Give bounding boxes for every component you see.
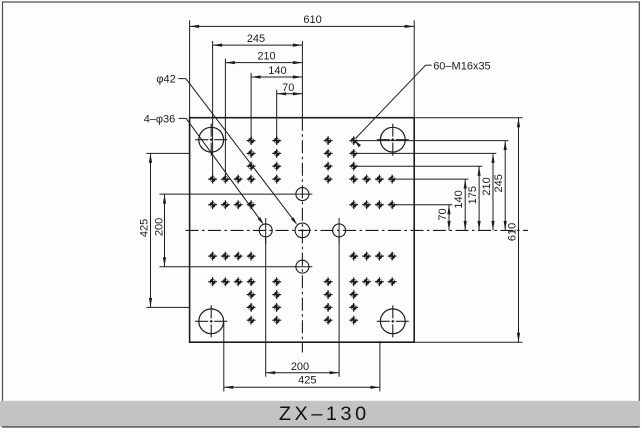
svg-text:140: 140	[453, 190, 465, 208]
M16 hole (140,-70)	[349, 200, 358, 209]
M16 hole (245,140)	[388, 277, 397, 286]
phi36 hole bottom	[296, 260, 309, 273]
M16 hole (140,-210)	[349, 149, 358, 158]
svg-text:610: 610	[303, 14, 321, 26]
svg-text:245: 245	[493, 174, 505, 192]
M16 hole (-140,-245)	[247, 136, 256, 145]
M16 hole (70,-245)	[324, 136, 333, 145]
M16 hole (-140,-175)	[247, 162, 256, 171]
M16 hole (-70,210)	[272, 303, 281, 312]
svg-text:610: 610	[506, 223, 518, 241]
M16 hole (-210,140)	[221, 277, 230, 286]
svg-text:200: 200	[291, 361, 309, 373]
svg-text:245: 245	[247, 33, 265, 45]
M16 hole (140,140)	[349, 277, 358, 286]
M16 hole (175,70)	[362, 252, 371, 261]
M16 hole (-245,140)	[208, 277, 217, 286]
phi36 hole top	[296, 188, 309, 201]
center extension line top	[301, 41, 303, 118]
M16 hole (140,245)	[349, 316, 358, 325]
tie-bar hole circle top-left	[195, 124, 227, 156]
dim 140 top	[251, 65, 302, 138]
svg-text:210: 210	[257, 51, 275, 63]
dim 245 top	[213, 33, 303, 176]
M16 hole (210,70)	[375, 252, 384, 261]
svg-text:60–M16x35: 60–M16x35	[433, 60, 491, 72]
svg-text:200: 200	[154, 218, 166, 236]
M16 hole (-140,140)	[247, 277, 256, 286]
M16 hole (175,140)	[362, 277, 371, 286]
svg-text:4–φ36: 4–φ36	[144, 113, 176, 125]
platen plate outline 610x610	[190, 118, 415, 343]
horizontal centerline	[186, 229, 529, 231]
dim 210 top	[225, 51, 302, 177]
dim 200 left	[154, 194, 313, 267]
M16 hole (-140,-140)	[247, 175, 256, 184]
M16 hole (140,70)	[349, 252, 358, 261]
M16 hole (70,175)	[324, 290, 333, 299]
M16 hole (-140,-70)	[247, 200, 256, 209]
M16 hole (70,245)	[324, 316, 333, 325]
title bar ZX-130	[0, 401, 640, 427]
M16 hole (-140,70)	[247, 252, 256, 261]
M16 hole (210,-70)	[375, 200, 384, 209]
dim 200 bottom	[266, 238, 339, 377]
dim 425 bottom	[224, 323, 380, 392]
M16 hole (140,175)	[349, 290, 358, 299]
phi36 hole right	[333, 218, 346, 244]
M16 hole (70,-210)	[324, 149, 333, 158]
M16 hole (70,-140)	[324, 175, 333, 184]
center hole phi42	[295, 223, 310, 238]
vertical centerline	[301, 118, 303, 353]
svg-text:ZX–130: ZX–130	[279, 403, 370, 425]
M16 hole (175,-140)	[362, 175, 371, 184]
dim 175 right	[357, 166, 482, 230]
svg-text:140: 140	[268, 65, 286, 77]
M16 hole (-175,70)	[234, 252, 243, 261]
M16 hole (-175,140)	[234, 277, 243, 286]
M16 hole (-245,-70)	[208, 200, 217, 209]
label phi42 with leader to center hole	[156, 74, 297, 226]
M16 hole (245,-140)	[388, 175, 397, 184]
M16 hole (-140,245)	[247, 316, 256, 325]
M16 hole (-245,-140)	[208, 175, 217, 184]
M16 hole (140,-175)	[349, 162, 358, 171]
tie-bar hole circle bottom-left	[195, 305, 227, 337]
dim 245 right	[357, 141, 509, 231]
svg-text:70: 70	[437, 208, 449, 220]
M16 hole (-70,-175)	[272, 162, 281, 171]
M16 hole (245,-70)	[388, 200, 397, 209]
svg-text:70: 70	[282, 82, 294, 94]
M16 hole (-175,-140)	[234, 175, 243, 184]
M16 hole (-210,70)	[221, 252, 230, 261]
dim 610 right	[414, 118, 522, 343]
M16 hole (140,-245)	[349, 136, 358, 145]
M16 hole (-175,-70)	[234, 200, 243, 209]
svg-text:φ42: φ42	[156, 74, 175, 86]
M16 hole (-70,245)	[272, 316, 281, 325]
M16 hole (140,-140)	[349, 175, 358, 184]
svg-text:425: 425	[298, 375, 316, 387]
label 60-M16x35 with leader to M16 hole	[354, 60, 491, 147]
M16 hole (-140,210)	[247, 303, 256, 312]
label 4-phi36 with leader to phi36 hole	[144, 113, 264, 225]
svg-text:210: 210	[481, 177, 493, 195]
M16 hole (70,140)	[324, 277, 333, 286]
M16 hole (-70,-245)	[272, 136, 281, 145]
M16 hole (-70,175)	[272, 290, 281, 299]
M16 hole (-140,-210)	[247, 149, 256, 158]
dim 70 top	[277, 82, 303, 138]
M16 hole (-210,-140)	[221, 175, 230, 184]
M16 hole (-140,175)	[247, 290, 256, 299]
M16 hole (245,70)	[388, 252, 397, 261]
tie-bar hole circle top-right	[377, 124, 409, 156]
M16 hole (210,140)	[375, 277, 384, 286]
M16 hole (-70,-140)	[272, 175, 281, 184]
dim 425 left	[138, 153, 189, 307]
M16 hole (140,210)	[349, 303, 358, 312]
M16 hole (-70,140)	[272, 277, 281, 286]
dim 70 right	[396, 205, 453, 231]
M16 hole (175,-70)	[362, 200, 371, 209]
M16 hole (210,-140)	[375, 175, 384, 184]
M16 hole (-210,-70)	[221, 200, 230, 209]
M16 hole (-70,-210)	[272, 149, 281, 158]
phi36 hole left	[259, 218, 272, 244]
dim 610 top	[190, 14, 415, 118]
dim 140 right	[396, 179, 469, 230]
M16 hole (-245,70)	[208, 252, 217, 261]
M16 hole (70,-175)	[324, 162, 333, 171]
svg-text:425: 425	[138, 219, 150, 237]
tie-bar hole circle bottom-right	[377, 305, 409, 337]
dim 210 right	[357, 153, 496, 230]
svg-text:175: 175	[467, 186, 479, 204]
M16 hole (70,210)	[324, 303, 333, 312]
